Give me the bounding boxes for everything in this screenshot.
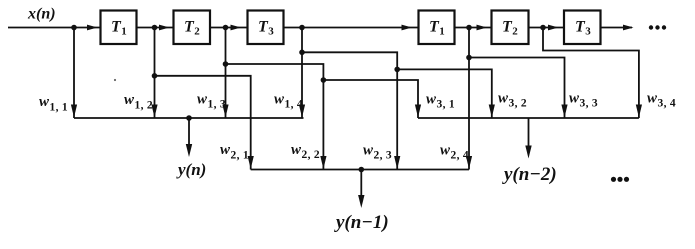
node branch w3,3: [466, 55, 472, 61]
wire input x(n): [8, 27, 101, 29]
wire tap drop w1,1: [73, 28, 75, 119]
arrowhead output y(n-2): [525, 146, 531, 159]
svg-text:y(n−1): y(n−1): [334, 212, 389, 233]
arrowhead wire continues right: [623, 25, 634, 31]
node bus1 output: [186, 115, 192, 121]
svg-text:w3, 2: w3, 2: [498, 91, 527, 110]
node branch w2,3: [299, 50, 305, 56]
wire T2b to T3b: [529, 27, 565, 29]
arrowhead into T2b: [477, 25, 488, 31]
svg-text:w3, 1: w3, 1: [426, 92, 455, 111]
arrowhead into T3b: [548, 25, 559, 31]
bus 3 summing line: [418, 117, 639, 119]
svg-text:w1, 2: w1, 2: [124, 92, 153, 112]
svg-text:w2, 2: w2, 2: [291, 142, 320, 161]
delay block T3 (first): [248, 11, 284, 45]
arrowhead w2,1: [248, 156, 254, 169]
wire branch w3,1: [323, 80, 418, 118]
node after T1a: [152, 25, 158, 31]
wire output y(n-2): [528, 118, 530, 150]
wire T1b to T2b: [455, 27, 492, 29]
wire tap drop w2,4: [468, 28, 470, 170]
svg-text:w1, 1: w1, 1: [39, 94, 68, 114]
print speck: [114, 79, 116, 81]
bus 2 summing line: [251, 169, 469, 171]
wire output y(n): [188, 118, 190, 148]
arrowhead output y(n-1): [358, 195, 364, 208]
svg-text:w1, 3: w1, 3: [197, 92, 226, 111]
wire tap drop w1,2: [154, 28, 156, 119]
delay block T3 (second): [564, 11, 601, 45]
node branch w3,2: [394, 67, 400, 73]
svg-text:w3, 4: w3, 4: [647, 91, 676, 110]
arrowhead w1,2: [151, 105, 157, 118]
wire T2a to T3a: [210, 27, 248, 29]
node after T2a: [223, 25, 229, 31]
wire branch w3,2: [397, 69, 492, 118]
svg-text:w2, 3: w2, 3: [363, 143, 392, 162]
wire T1a to T2a: [137, 27, 174, 29]
wire output y(n-1): [360, 170, 362, 200]
arrowhead into T1a: [87, 25, 98, 31]
ellipsis lower right: [611, 177, 616, 182]
wire T3b output: [601, 27, 633, 29]
arrowhead into T2a: [159, 25, 170, 31]
arrowhead w2,2: [320, 156, 326, 169]
wire branch w2,3: [302, 52, 397, 169]
bus 1 summing line: [74, 117, 304, 119]
delay block T2 (second): [492, 11, 529, 45]
svg-text:w1, 4: w1, 4: [274, 92, 303, 111]
wire branch w3,3: [469, 58, 565, 119]
delay block T2 (first): [174, 11, 211, 45]
svg-text:w2, 4: w2, 4: [440, 143, 469, 162]
wire tap drop T2b: [543, 28, 639, 119]
node input tap: [71, 25, 77, 31]
node branch w2,2: [223, 61, 229, 67]
arrowhead into T1b: [402, 25, 413, 31]
arrowhead w1,1: [71, 105, 77, 118]
node branch w3,1: [321, 77, 327, 83]
node bus2 output: [359, 167, 365, 173]
ellipsis after wire: [649, 25, 653, 29]
wire branch w2,2: [226, 64, 324, 170]
delay block T1 (first): [101, 11, 137, 45]
svg-text:y(n): y(n): [176, 160, 206, 179]
arrowhead w3,4: [636, 105, 642, 118]
svg-text:x(n): x(n): [27, 6, 56, 23]
svg-text:w3, 3: w3, 3: [569, 91, 598, 110]
arrowhead w3,1: [415, 105, 421, 118]
node after T1b: [466, 25, 472, 31]
wire tap drop w1,3: [225, 28, 227, 119]
arrowhead into T3a: [231, 25, 242, 31]
arrowhead w2,4: [466, 156, 472, 169]
node after T2b: [540, 25, 546, 31]
node after T3a: [299, 25, 305, 31]
arrowhead w1,3: [222, 105, 228, 118]
arrowhead w3,3: [561, 105, 567, 118]
node branch w2,1: [152, 73, 158, 79]
arrowhead w1,4: [299, 105, 305, 118]
arrowhead w2,3: [394, 156, 400, 169]
svg-text:y(n−2): y(n−2): [502, 164, 557, 185]
delay block T1 (second): [419, 11, 455, 45]
wire tap drop w1,4: [301, 28, 303, 119]
wire T3a to T1b: [284, 27, 419, 29]
arrowhead output y(n): [186, 144, 192, 157]
arrowhead w3,2: [489, 105, 495, 118]
svg-text:w2, 1: w2, 1: [220, 142, 249, 162]
wire branch w2,1: [155, 76, 251, 170]
